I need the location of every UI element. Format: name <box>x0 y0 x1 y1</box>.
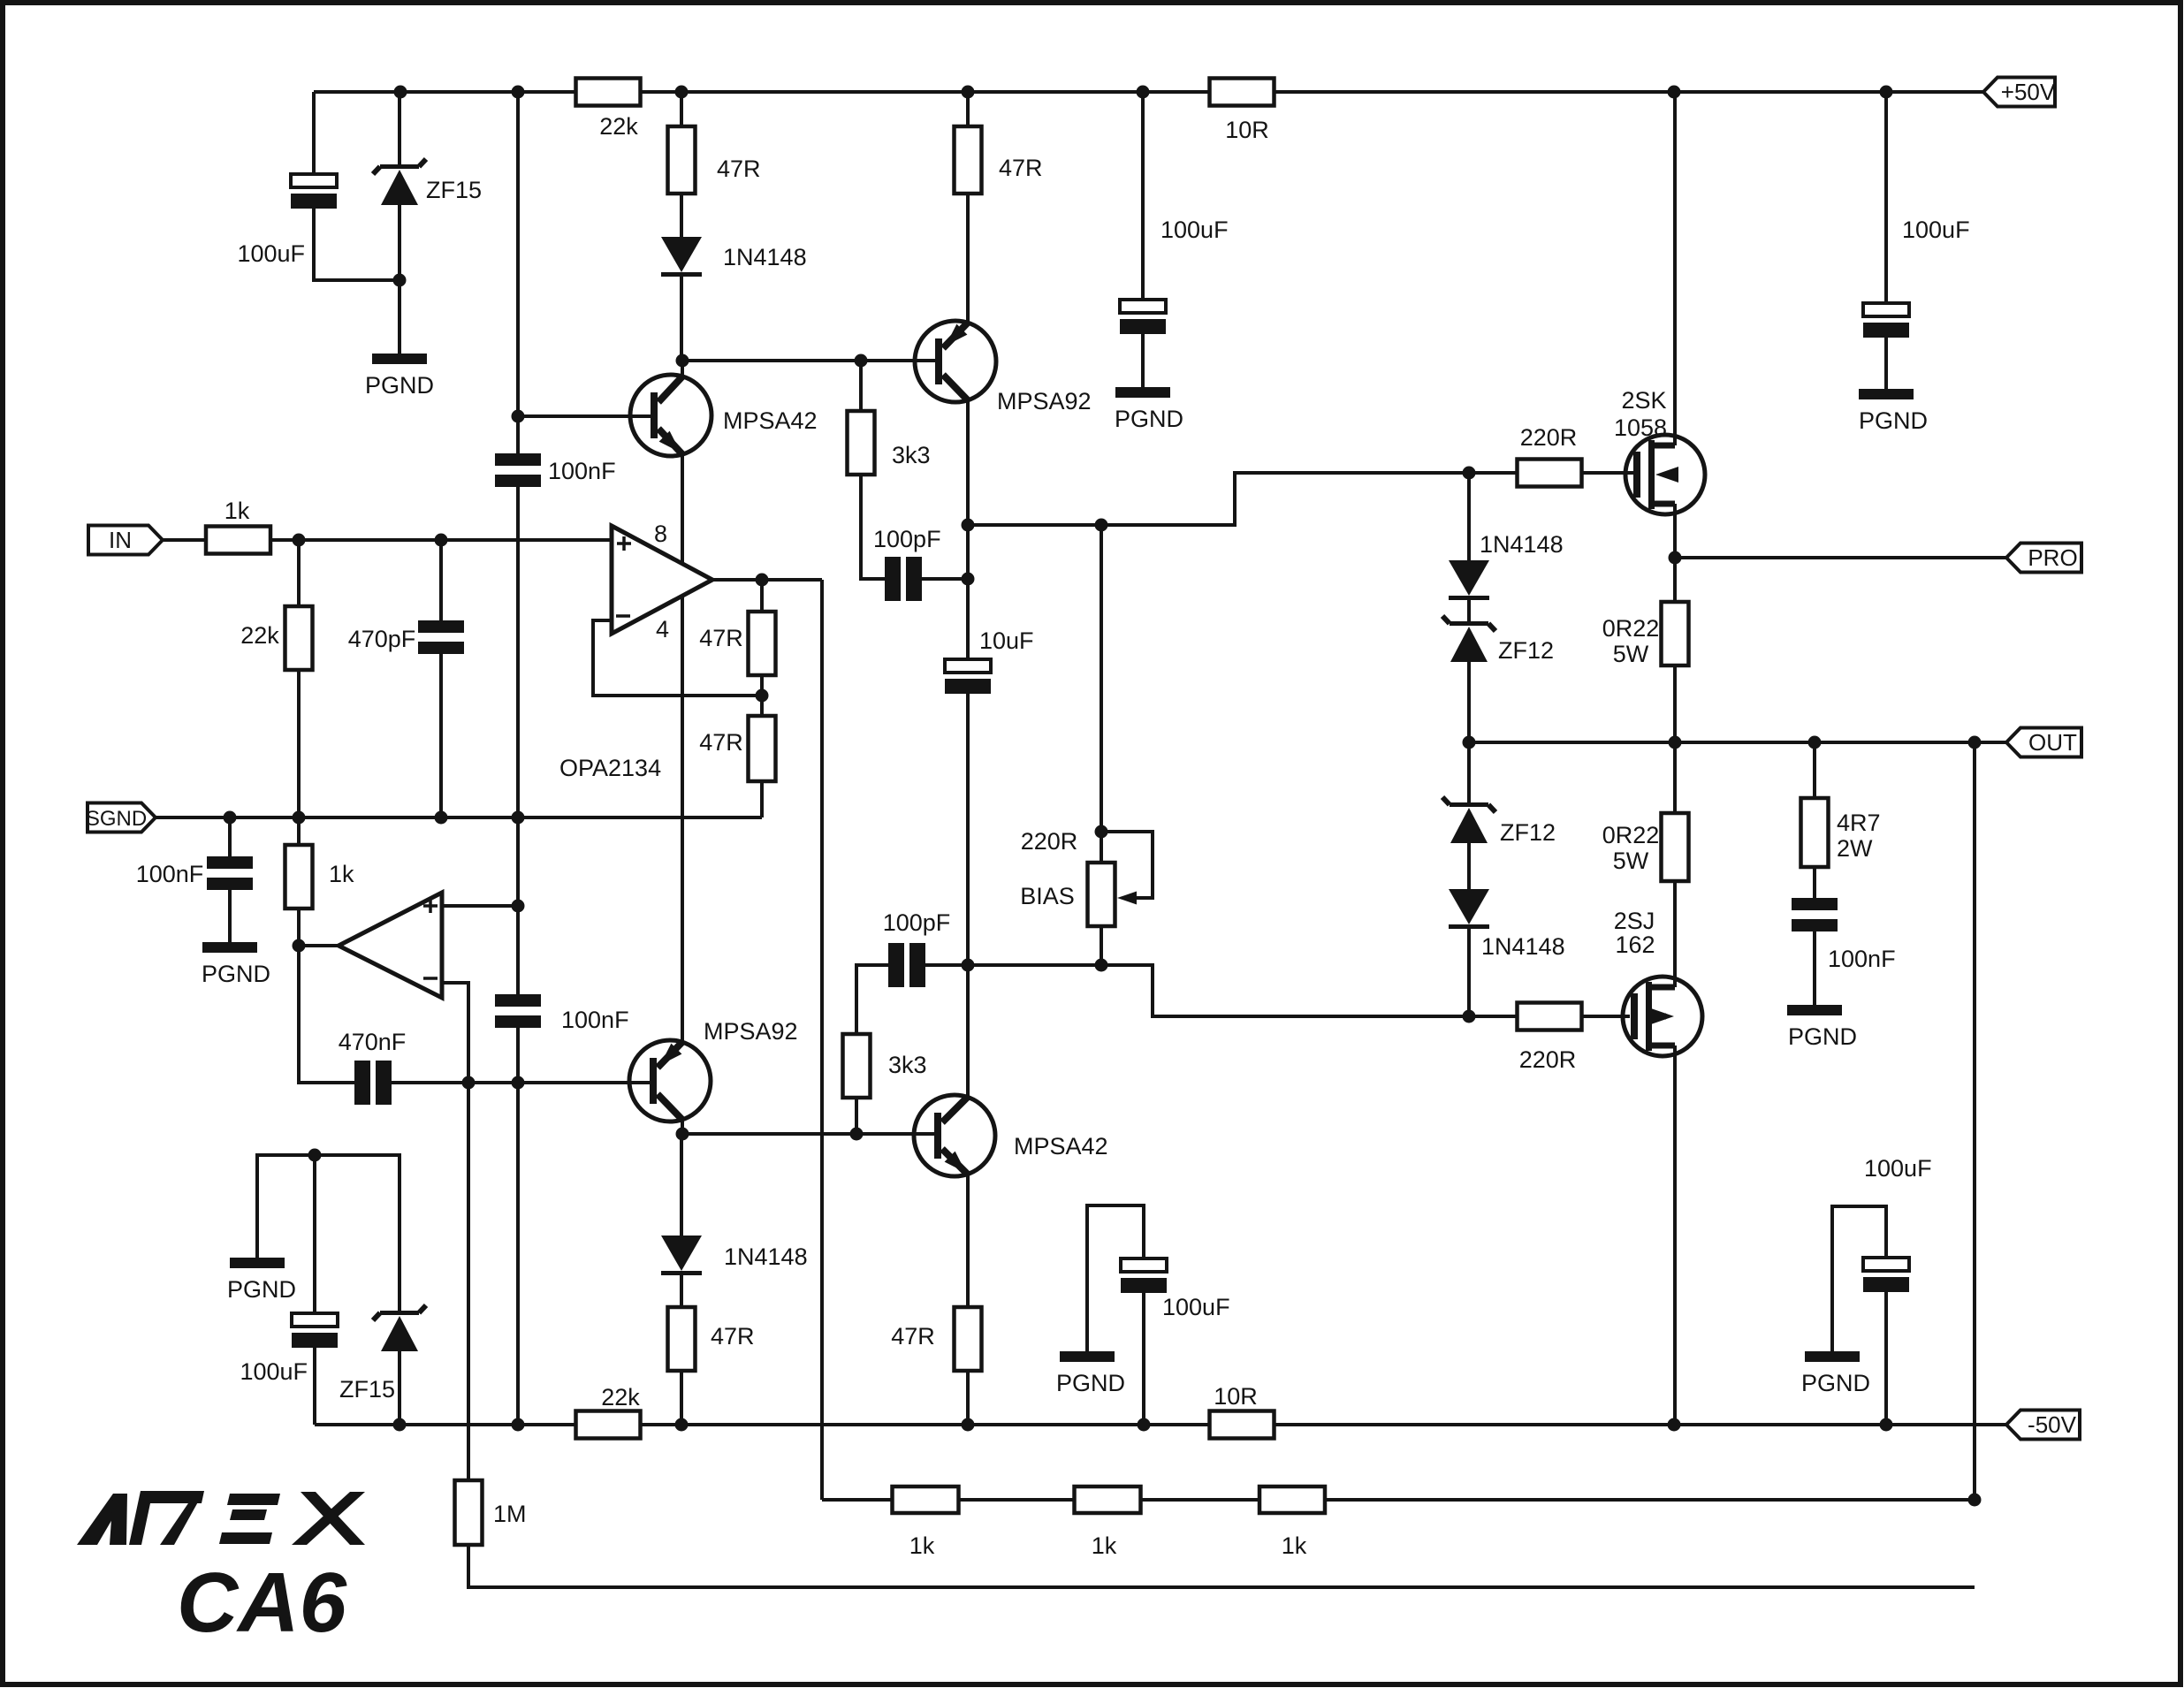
ground PGND (bottom-right) <box>1805 1351 1860 1362</box>
svg-text:MPSA42: MPSA42 <box>1014 1133 1108 1160</box>
svg-text:8: 8 <box>654 521 667 547</box>
svg-text:100uF: 100uF <box>240 1358 308 1385</box>
wire 100nF to PGND <box>1813 931 1816 1005</box>
wire OUT rail <box>1469 741 2006 744</box>
resistor 47R (feedback lower) <box>749 716 776 781</box>
svg-text:PGND: PGND <box>1056 1370 1125 1396</box>
transistor MPSA92 Q3 <box>629 1040 711 1122</box>
svg-text:47R: 47R <box>999 155 1043 181</box>
ground PGND (top-left) <box>372 354 427 364</box>
svg-text:IN: IN <box>109 527 132 553</box>
svg-text:162: 162 <box>1615 931 1655 958</box>
wire BL cap branch <box>313 1155 316 1313</box>
svg-text:100uF: 100uF <box>1160 217 1229 243</box>
wire MPSA42-1 base <box>518 414 651 418</box>
wire M1 source <box>1673 504 1677 602</box>
transistor MPSA92 Q2 <box>915 321 996 402</box>
wire 1k-2 top <box>297 817 301 845</box>
wire 100uF-5 bracket <box>1087 1205 1144 1351</box>
wire 3k3-2 bottom <box>855 1098 858 1134</box>
svg-text:100nF: 100nF <box>561 1007 629 1033</box>
flag -50V <box>2006 1410 2080 1440</box>
svg-text:PGND: PGND <box>1859 407 1928 434</box>
wire 3k3-2 top to 100pF <box>856 965 888 1034</box>
svg-text:2SJ: 2SJ <box>1614 908 1655 934</box>
zener ZF12 Z1 <box>1450 621 1488 626</box>
node 3k3-2 bottom <box>850 1128 864 1141</box>
svg-text:47R: 47R <box>711 1323 755 1350</box>
diode 1N4148 D1 <box>661 237 702 272</box>
wire SGND rail <box>156 816 762 819</box>
svg-text:1N4148: 1N4148 <box>724 1243 808 1270</box>
resistor 220R (lower gate) <box>1518 1003 1582 1030</box>
wire chain seg4 <box>1467 843 1471 889</box>
capacitor 100nF (4R7) <box>1792 898 1838 910</box>
resistor 1k (fb1) <box>893 1487 959 1513</box>
svg-text:PGND: PGND <box>1788 1023 1857 1050</box>
svg-text:1M: 1M <box>493 1501 527 1527</box>
wire D4 to 47R-3 <box>680 1275 683 1307</box>
svg-text:MPSA92: MPSA92 <box>704 1018 798 1045</box>
wire U1B + input <box>442 904 518 908</box>
svg-text:0R22: 0R22 <box>1602 822 1660 848</box>
resistor 220R (upper gate) <box>1518 460 1582 487</box>
wire 47R-f1 bottom <box>760 675 764 696</box>
svg-text:OUT: OUT <box>2028 729 2077 756</box>
wire 47R-1 to diode <box>680 194 683 237</box>
node BIAS riser top <box>1095 519 1108 532</box>
node top rail junctions <box>394 86 407 99</box>
resistor 1k (input) <box>206 527 270 554</box>
wire 3k3-1 top <box>859 361 863 411</box>
svg-text:470nF: 470nF <box>339 1029 407 1055</box>
wire V586 mid <box>516 487 520 817</box>
svg-text:1k: 1k <box>224 498 250 524</box>
wire chain seg2 <box>1467 600 1471 621</box>
wire D1 to collector node <box>680 277 683 361</box>
wire 100uF top-left branch <box>312 92 316 174</box>
wire 47R-f2 to SGND <box>760 781 764 817</box>
node OUT junctions <box>1669 736 1682 749</box>
node feedback <box>756 689 769 703</box>
svg-text:PRO: PRO <box>2028 544 2077 571</box>
node U1B out <box>293 939 306 953</box>
svg-text:100nF: 100nF <box>548 458 616 484</box>
wire PRO <box>1675 556 2006 559</box>
wire U1A out riser <box>820 580 824 1500</box>
node V1095 cap junction <box>962 519 975 532</box>
diode 1N4148 D2 <box>1449 560 1489 596</box>
wire 3k3-1 to 100pF <box>861 475 885 579</box>
wire U1B output <box>299 944 339 947</box>
capacitor 100uF (top-middle) <box>1120 300 1166 313</box>
svg-text:5W: 5W <box>1613 641 1649 667</box>
wire Q3 col to D4 <box>680 1134 683 1236</box>
resistor 22k (input shunt) <box>285 606 313 670</box>
svg-text:4R7: 4R7 <box>1837 810 1881 836</box>
svg-text:1N4148: 1N4148 <box>1480 531 1564 558</box>
wire 470pF top <box>439 540 443 620</box>
svg-text:10R: 10R <box>1225 117 1269 143</box>
svg-text:1N4148: 1N4148 <box>723 244 807 270</box>
svg-text:3k3: 3k3 <box>888 1052 927 1078</box>
wire M1 drain <box>1673 92 1677 445</box>
resistor 47R (top-right) <box>955 126 982 194</box>
ground PGND (top-middle) <box>1115 387 1170 398</box>
resistor 10R (bottom) <box>1210 1411 1275 1439</box>
svg-text:47R: 47R <box>717 156 761 182</box>
node IN junctions <box>293 534 306 547</box>
svg-text:3k3: 3k3 <box>892 442 931 468</box>
wire feedback chain <box>822 1498 1975 1502</box>
wire 0R22-1 to OUT <box>1673 665 1677 742</box>
zener ZF15 (bottom-left) <box>380 1311 419 1315</box>
svg-text:100uF: 100uF <box>237 240 305 267</box>
svg-text:MPSA42: MPSA42 <box>723 407 818 434</box>
wire 47R-f1 top <box>760 580 764 612</box>
wire Q1 collector to Q2 base <box>682 359 936 362</box>
wire V586 low <box>516 817 520 994</box>
svg-text:2W: 2W <box>1837 835 1873 862</box>
wire V586 upper <box>516 92 520 453</box>
capacitor 10uF <box>966 579 970 659</box>
wire pot node left <box>968 963 1101 967</box>
wire Q3 collector <box>681 1120 684 1134</box>
wire pot bottom <box>1100 926 1103 965</box>
svg-text:100pF: 100pF <box>873 526 941 552</box>
wire 220R-1 to gate <box>1582 471 1633 475</box>
wire 100pF-2 to V1095 <box>925 963 968 967</box>
capacitor 100uF (bottom-left) <box>292 1313 338 1327</box>
wire 47R-3 to rail <box>680 1371 683 1425</box>
svg-text:2SK: 2SK <box>1621 387 1666 414</box>
svg-text:100uF: 100uF <box>1864 1155 1932 1182</box>
capacitor 100uF (bottom-right) <box>1863 1258 1909 1271</box>
capacitor 100uF (mid-bottom) <box>1121 1258 1167 1272</box>
resistor 3k3 (upper) <box>848 411 875 475</box>
node BIAS wiper top <box>1095 825 1108 839</box>
logo APEX <box>77 1494 127 1545</box>
resistor 1k (fb2) <box>1075 1487 1141 1513</box>
node 470nF junctions <box>462 1076 476 1090</box>
node 100pF-2 junction <box>962 959 975 972</box>
wire 47R-2 to Q2 emitter <box>966 194 970 323</box>
wire chain seg5 <box>1467 929 1471 1016</box>
svg-text:1k: 1k <box>329 861 354 887</box>
wire 100uF-2 branch <box>1141 92 1145 300</box>
wire BL cap to rail <box>313 1348 316 1425</box>
ground PGND (mid-bottom) <box>1060 1351 1115 1362</box>
wire 100nF-3i to PGND <box>228 890 232 942</box>
wire 47R-4 to rail <box>966 1371 970 1425</box>
node U1A out <box>756 574 769 587</box>
flag IN <box>88 526 163 555</box>
capacitor 100pF (upper) <box>885 557 901 601</box>
capacitor 470nF <box>354 1061 370 1105</box>
svg-text:PGND: PGND <box>227 1276 296 1303</box>
transistor MPSA42 Q1 <box>630 375 712 456</box>
capacitor 100nF (V586 upper) <box>495 453 541 466</box>
resistor 1M <box>455 1480 483 1545</box>
svg-text:22k: 22k <box>599 113 638 140</box>
node pot bottom <box>1095 959 1108 972</box>
wire 100uF-2 to PGND <box>1141 334 1145 387</box>
node Q3 collector <box>676 1128 689 1141</box>
ground PGND (top-right) <box>1859 389 1914 399</box>
wire 0R22-2 to M2 drain <box>1673 881 1677 987</box>
wire 47R-f2 top <box>760 696 764 716</box>
ground PGND (4R7) <box>1787 1005 1842 1015</box>
wire 100uF-3 branch <box>1884 92 1888 303</box>
wire 10uF down <box>966 694 970 1098</box>
wire U1A output <box>712 578 822 582</box>
svg-text:220R: 220R <box>1519 1046 1577 1073</box>
node PRO junction <box>1669 551 1682 565</box>
wire chain seg3 <box>1467 662 1471 804</box>
svg-text:100uF: 100uF <box>1162 1294 1230 1320</box>
wire 47R-1 top <box>680 92 683 126</box>
svg-text:ZF12: ZF12 <box>1500 819 1556 846</box>
wire Q2 collector down <box>966 400 970 579</box>
svg-text:-50V: -50V <box>2028 1411 2077 1438</box>
wire BL zener to rail <box>398 1351 401 1425</box>
resistor 47R (feedback upper) <box>749 612 776 675</box>
svg-text:ZF15: ZF15 <box>339 1376 395 1403</box>
wire 100nF-3i top <box>228 817 232 856</box>
ground PGND (SGND) <box>202 942 257 953</box>
node SGND junctions <box>224 811 237 825</box>
wire 100uF-6 bracket <box>1832 1206 1886 1351</box>
svg-text:220R: 220R <box>1021 828 1078 855</box>
wire 100uF-3 to PGND <box>1884 338 1888 389</box>
transistor 2SK1058 M1 <box>1625 435 1705 514</box>
resistor 22k (bottom) <box>576 1411 641 1439</box>
svg-text:BIAS: BIAS <box>1020 883 1075 909</box>
resistor 0R22 5W (lower) <box>1662 813 1689 881</box>
resistor 47R (lower right) <box>955 1307 982 1371</box>
potentiometer 220R BIAS <box>1088 863 1115 926</box>
resistor 47R (lower left) <box>668 1307 696 1371</box>
wire U1B - input <box>442 983 468 1083</box>
node chain bottom <box>1463 1010 1476 1023</box>
diode 1N4148 D3 <box>1449 889 1489 924</box>
flag PRO <box>2006 544 2081 573</box>
resistor 3k3 (lower) <box>843 1034 871 1098</box>
capacitor 100nF (SGND) <box>207 856 253 869</box>
wire +50V top rail <box>314 90 1983 94</box>
wire MPSA42-1 emitter long <box>681 454 684 1042</box>
svg-text:4: 4 <box>656 616 669 643</box>
node MPSA42 base junction <box>512 410 525 423</box>
wire BIAS riser <box>1100 525 1103 863</box>
wire Q2 collector to gate riser <box>968 473 1469 525</box>
svg-text:22k: 22k <box>240 622 279 649</box>
node BL junction <box>308 1149 322 1162</box>
svg-text:100nF: 100nF <box>1828 946 1896 972</box>
node Q1 collector <box>676 354 689 368</box>
resistor 0R22 5W (upper) <box>1662 602 1689 665</box>
svg-text:100pF: 100pF <box>883 909 951 936</box>
resistor 1k (op2) <box>285 845 313 909</box>
transistor MPSA42 Q4 <box>914 1095 995 1176</box>
resistor 1k (fb3) <box>1259 1487 1325 1513</box>
zener ZF12 Z2 <box>1450 802 1488 807</box>
op-amp U1A OPA2134 <box>612 526 712 634</box>
wire 100uF bottom to ZF15 <box>314 209 400 280</box>
svg-text:CA6: CA6 <box>177 1555 347 1650</box>
node U1B + junction <box>512 900 525 913</box>
svg-text:MPSA92: MPSA92 <box>997 388 1092 414</box>
wire 100pF-1 to V1095 <box>922 577 968 581</box>
wire U1A feedback stub <box>593 620 762 696</box>
svg-text:47R: 47R <box>699 625 743 651</box>
svg-text:47R: 47R <box>699 729 743 756</box>
svg-text:1k: 1k <box>1282 1532 1307 1559</box>
resistor 47R (top-left) <box>668 126 696 194</box>
wire OUT riser <box>1973 742 1976 1500</box>
svg-text:1k: 1k <box>909 1532 935 1559</box>
wire 1k-2 bottom <box>297 909 301 946</box>
wire 100uF-5 to rail <box>1142 1293 1145 1425</box>
capacitor 100uF (top-right) <box>1863 303 1909 316</box>
node feedback right <box>1968 1494 1982 1507</box>
node -50V junctions <box>393 1418 407 1432</box>
zener ZF15 (top-left) <box>398 92 401 167</box>
ground PGND (bottom-left) <box>230 1258 285 1268</box>
svg-text:220R: 220R <box>1520 424 1578 451</box>
svg-text:PGND: PGND <box>202 961 270 987</box>
wire 22k-L top <box>297 540 301 606</box>
diode 1N4148 D4 <box>661 1236 702 1271</box>
capacitor 100nF (V586 lower) <box>495 994 541 1007</box>
wire gate2 from chain <box>1469 1015 1518 1018</box>
svg-text:PGND: PGND <box>1801 1370 1870 1396</box>
wire 470nF to base Q3 <box>392 1081 651 1084</box>
wire ZF15 to PGND <box>398 205 401 354</box>
svg-text:PGND: PGND <box>365 372 434 399</box>
wire V530 down <box>467 1083 470 1480</box>
wire OUT to 4R7 <box>1813 742 1816 798</box>
wire 1M to bottom rail <box>468 1545 1975 1587</box>
svg-text:ZF15: ZF15 <box>426 177 482 203</box>
wire OUT to 0R22-2 <box>1673 742 1677 813</box>
node diode chain top <box>1463 467 1476 480</box>
wire BL block top <box>257 1155 400 1313</box>
svg-text:SGND: SGND <box>86 807 147 831</box>
capacitor 100pF (lower) <box>888 943 904 987</box>
flag +50V <box>1983 78 2055 107</box>
wire 470pF bottom <box>439 654 443 817</box>
wire 22k-L bottom <box>297 670 301 817</box>
wire Q4 emitter <box>966 1172 970 1307</box>
svg-text:100uF: 100uF <box>1902 217 1970 243</box>
resistor 4R7 2W <box>1801 798 1829 867</box>
wire M2 source <box>1673 1045 1677 1425</box>
svg-text:22k: 22k <box>601 1384 640 1410</box>
flag SGND <box>88 803 156 833</box>
wire MPSA42-1 collector <box>681 361 684 376</box>
node OUT chain junction <box>1463 736 1476 749</box>
svg-text:OPA2134: OPA2134 <box>559 755 661 781</box>
resistor 22k (top) <box>576 79 641 106</box>
node 3k3-1 top <box>855 354 868 368</box>
flag OUT <box>2006 728 2081 757</box>
svg-text:10uF: 10uF <box>979 627 1034 654</box>
svg-text:47R: 47R <box>891 1323 935 1350</box>
wire 4R7 to 100nF <box>1813 867 1816 898</box>
op-amp U1B OPA2134 <box>339 893 442 998</box>
svg-text:5W: 5W <box>1613 848 1649 874</box>
svg-text:PGND: PGND <box>1115 406 1183 432</box>
svg-text:1k: 1k <box>1092 1532 1117 1559</box>
wire chain seg1 <box>1467 473 1471 560</box>
svg-text:10R: 10R <box>1214 1383 1258 1410</box>
svg-text:+50V: +50V <box>2001 79 2056 105</box>
wire -50V rail <box>315 1423 2006 1426</box>
wire pot node to gate2 <box>1101 965 1469 1016</box>
wire 100uF-6 to rail <box>1884 1292 1888 1425</box>
svg-text:1058: 1058 <box>1614 414 1667 441</box>
wire U1B out to 470nF <box>299 946 354 1083</box>
transistor 2SJ162 M2 <box>1623 977 1702 1056</box>
wire 47R-2 top <box>966 92 970 126</box>
capacitor 470pF <box>418 620 464 633</box>
capacitor 100uF (top-left) <box>291 174 337 187</box>
wire IN to 1k <box>163 538 206 542</box>
svg-text:ZF12: ZF12 <box>1498 637 1554 664</box>
svg-text:1N4148: 1N4148 <box>1481 933 1565 960</box>
resistor 10R (top) <box>1210 79 1275 106</box>
wire V586 bottom <box>516 1028 520 1425</box>
wire chain node to 220R-1 <box>1469 471 1518 475</box>
svg-text:100nF: 100nF <box>136 861 204 887</box>
svg-text:0R22: 0R22 <box>1602 615 1660 642</box>
wire 1k to opamp + <box>270 538 612 542</box>
wire 220R-2 to gate <box>1582 1015 1630 1018</box>
svg-text:470pF: 470pF <box>348 626 416 652</box>
wire Q3 collector to Q4 base <box>682 1132 936 1136</box>
